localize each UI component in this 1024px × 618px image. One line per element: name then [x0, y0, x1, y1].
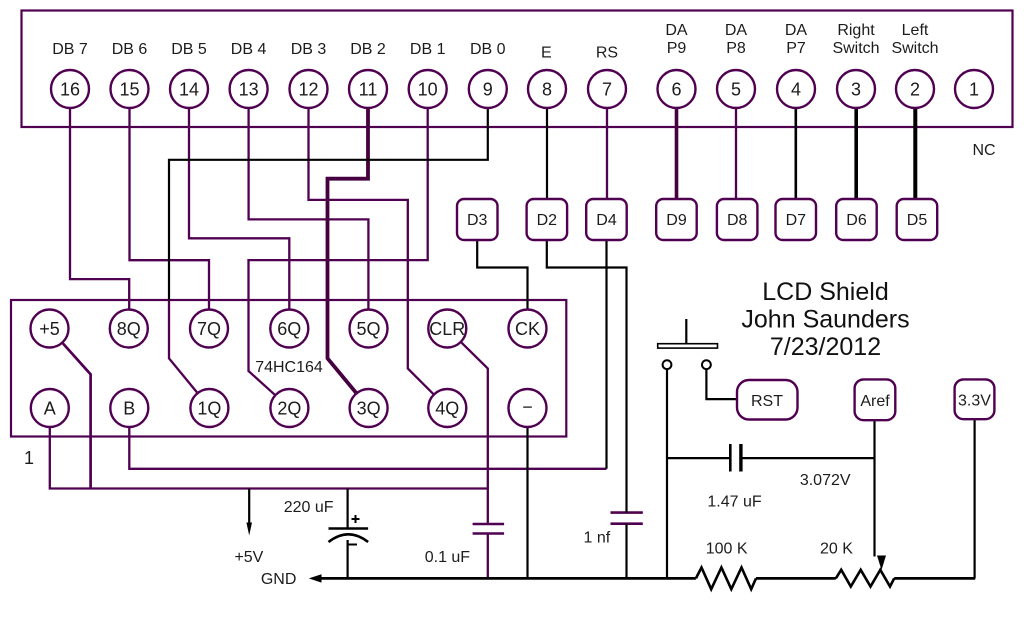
svg-text:1 nf: 1 nf: [584, 530, 611, 547]
svg-text:1Q: 1Q: [197, 399, 221, 419]
svg-text:11: 11: [359, 80, 378, 100]
svg-text:8Q: 8Q: [117, 319, 141, 339]
svg-text:DB 0: DB 0: [470, 41, 506, 58]
svg-text:Right: Right: [837, 22, 875, 39]
svg-text:8: 8: [542, 80, 552, 100]
svg-text:RST: RST: [751, 393, 783, 410]
svg-text:12: 12: [298, 80, 318, 100]
svg-text:LCD Shield: LCD Shield: [762, 278, 888, 306]
svg-text:DB 3: DB 3: [291, 41, 327, 58]
svg-text:DA: DA: [665, 22, 688, 39]
svg-text:NC: NC: [972, 142, 995, 159]
svg-text:5: 5: [731, 80, 741, 100]
svg-text:DB 4: DB 4: [231, 41, 267, 58]
svg-text:3.3V: 3.3V: [958, 393, 991, 410]
svg-text:D3: D3: [467, 212, 488, 229]
svg-text:DA: DA: [725, 22, 748, 39]
svg-text:DB 6: DB 6: [112, 41, 148, 58]
svg-text:14: 14: [179, 80, 199, 100]
svg-text:Aref: Aref: [860, 393, 890, 410]
svg-text:13: 13: [239, 80, 259, 100]
svg-text:−: −: [522, 397, 533, 417]
svg-text:7: 7: [602, 80, 612, 100]
svg-text:+5: +5: [39, 319, 60, 339]
svg-text:Left: Left: [902, 22, 929, 39]
svg-text:D4: D4: [596, 212, 617, 229]
svg-text:DB 5: DB 5: [171, 41, 207, 58]
svg-text:DA: DA: [785, 22, 808, 39]
svg-text:DB 1: DB 1: [410, 41, 446, 58]
svg-text:P9: P9: [667, 40, 687, 57]
svg-text:7Q: 7Q: [197, 319, 221, 339]
svg-text:John Saunders: John Saunders: [741, 306, 909, 334]
svg-text:A: A: [44, 399, 56, 419]
svg-text:DB 7: DB 7: [52, 41, 88, 58]
svg-text:3Q: 3Q: [357, 399, 381, 419]
svg-text:74HC164: 74HC164: [255, 359, 323, 376]
svg-text:D8: D8: [727, 212, 748, 229]
svg-text:2: 2: [910, 80, 920, 100]
svg-text:220 uF: 220 uF: [284, 499, 334, 516]
svg-text:2Q: 2Q: [277, 399, 301, 419]
svg-text:D6: D6: [846, 212, 867, 229]
svg-text:B: B: [123, 399, 135, 419]
svg-text:4Q: 4Q: [435, 399, 459, 419]
svg-text:10: 10: [418, 80, 438, 100]
svg-text:RS: RS: [596, 45, 618, 62]
svg-text:1: 1: [969, 80, 979, 100]
svg-text:16: 16: [60, 80, 80, 100]
svg-text:D7: D7: [786, 212, 807, 229]
svg-text:CK: CK: [515, 319, 540, 339]
svg-text:D2: D2: [537, 212, 558, 229]
svg-text:6: 6: [671, 80, 681, 100]
svg-text:15: 15: [119, 80, 139, 100]
svg-text:P7: P7: [786, 40, 806, 57]
svg-text:4: 4: [791, 80, 801, 100]
svg-text:Switch: Switch: [832, 40, 879, 57]
svg-text:1: 1: [24, 448, 34, 468]
svg-text:20 K: 20 K: [820, 541, 853, 558]
svg-text:0.1 uF: 0.1 uF: [425, 549, 471, 566]
svg-text:7/23/2012: 7/23/2012: [770, 333, 881, 361]
svg-text:3: 3: [851, 80, 861, 100]
svg-text:1.47 uF: 1.47 uF: [707, 494, 761, 511]
svg-text:+5V: +5V: [234, 549, 263, 566]
svg-text:GND: GND: [261, 571, 297, 588]
svg-text:CLR: CLR: [429, 319, 465, 339]
svg-text:P8: P8: [726, 40, 746, 57]
svg-text:E: E: [541, 45, 552, 62]
svg-text:100 K: 100 K: [706, 541, 748, 558]
svg-text:6Q: 6Q: [277, 319, 301, 339]
svg-text:Switch: Switch: [891, 40, 938, 57]
svg-text:D9: D9: [666, 212, 687, 229]
svg-text:5Q: 5Q: [356, 319, 380, 339]
svg-text:DB 2: DB 2: [350, 41, 386, 58]
svg-text:3.072V: 3.072V: [800, 472, 851, 489]
svg-text:D5: D5: [907, 212, 928, 229]
svg-text:9: 9: [483, 80, 493, 100]
